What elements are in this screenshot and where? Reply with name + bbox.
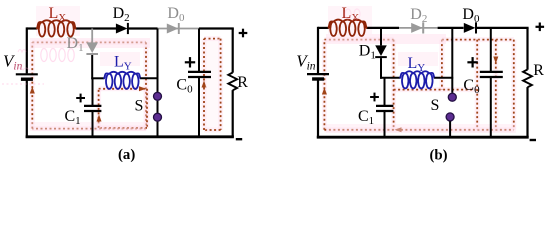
wire: (b) bottom rail [317, 136, 529, 139]
current loop 1 (b): input loop Vin-Lx-D1-C1 [324, 40, 393, 130]
capacitor C0 (b) plates [480, 72, 503, 77]
label S (b) [431, 97, 440, 114]
switch S terminal dot lower (b) [446, 113, 454, 121]
diode D0 (a) gray [167, 23, 179, 34]
label Ly (a) [114, 54, 132, 73]
svg-text:S: S [135, 98, 144, 115]
polarity + of C1 (a) [76, 94, 85, 103]
wire: (a) switch branch (closed) [157, 29, 159, 137]
caption (a) [118, 147, 135, 163]
label C0 (a) [176, 77, 193, 96]
diode D2 (a) [116, 23, 128, 34]
label C0 (b) [463, 77, 480, 96]
label D0 (a) [167, 5, 185, 24]
wire: (b) Ly to switch branch [434, 77, 453, 79]
wire: (b) C1 bottom lead [384, 112, 386, 137]
label D2 (a) [113, 5, 130, 24]
current loop 3 middle edge with down-arrow (b) [493, 40, 498, 130]
wire: (b) top rail to D0 [438, 27, 464, 29]
output terminal + (a) [239, 29, 248, 38]
caption (b) [430, 147, 448, 163]
wire: (b) C0 top lead [490, 28, 492, 71]
current loop 3 up-arrow (a) [202, 81, 207, 88]
diode D2 (b) gray [411, 22, 423, 33]
inductor Lx (b) coil [329, 20, 367, 36]
wire: (a) R branch upper [232, 29, 234, 73]
wire: (a) top rail C0-node to R corner [199, 27, 234, 29]
background tint patches (decorative) [30, 6, 516, 133]
wire: (a) C1 bottom lead [92, 112, 94, 137]
label D2 (b) [410, 6, 427, 25]
current loop 3 right edge (b) [511, 40, 516, 130]
wire: (b) switch branch upper (open) [451, 28, 453, 93]
current loop 2 up-arrow (a) [97, 115, 102, 122]
resistor R (b) zigzag [523, 70, 532, 88]
current loop 2 (b): Ly-D0 loop edges [394, 40, 514, 90]
wire: (a) top rail Lx-to-D2 [76, 27, 117, 29]
wire: (b) D1 branch anode lead [380, 28, 382, 46]
wire: (a) top rail D2-to-S-node [128, 27, 158, 29]
inductor Ly (a) coil [104, 72, 140, 89]
svg-text:R: R [533, 62, 544, 79]
diode D0 (b) [464, 22, 476, 33]
wire: (a) Ly to switch branch [140, 77, 158, 79]
resistor R (a) zigzag [228, 73, 237, 91]
inductor Ly (b) coil [400, 71, 434, 88]
label R (a) [237, 74, 248, 91]
wire: (a) C1 top lead [92, 78, 94, 105]
output terminal - (b) [530, 139, 536, 141]
svg-text:R: R [237, 74, 248, 91]
switch S terminal dot upper (a) [154, 92, 162, 100]
wire: (a) bottom rail [26, 135, 234, 138]
label S (a) [135, 98, 144, 115]
wire: (b) top rail Lx-to-D1-node [367, 27, 400, 29]
polarity + of C0 (b) [467, 57, 477, 67]
battery source Vin (b) plates [307, 74, 329, 79]
wire: (a) top rail left segment [27, 27, 38, 29]
current loop 2 right-arrow (a) [139, 86, 146, 91]
wire: (b) R branch lower [526, 87, 528, 137]
label Vin (b) [296, 52, 316, 73]
wire: (b) C1 top lead [384, 78, 386, 105]
diode D1 (a) gray [86, 42, 98, 54]
wire: (b) node to Ly [380, 77, 400, 79]
decorative jpeg ghost artifacts [17, 50, 29, 71]
label C1 (b) [358, 108, 374, 127]
current loop 3 (a): C0-R output loop [204, 39, 221, 130]
wire: (a) left rail above source [26, 27, 28, 73]
wire: (b) top rail gray segment through D2 (off) [399, 27, 438, 29]
current loop 1 left-arrow (b) [395, 127, 402, 132]
wire: (a) C0 top lead [198, 29, 200, 72]
current loop 3 down-arrow (b) [493, 57, 498, 64]
label R (b) [533, 62, 544, 79]
wire: (b) switch branch lower (open) [449, 121, 451, 137]
output terminal + (b) [536, 23, 545, 32]
svg-text:(b): (b) [430, 147, 448, 163]
wire: (b) top rail left segment [318, 27, 329, 29]
capacitor C1 (a) plates [84, 106, 101, 111]
switch S terminal dot lower (a) [154, 113, 162, 121]
wire: (a) left rail below source [26, 79, 28, 138]
wire: (b) left rail below source [317, 79, 319, 138]
wire: (a) top rail gray segment through D0 (off) [158, 28, 200, 30]
current loop 2 (a): C1-Ly-S loop [99, 89, 147, 128]
label D0 (b) [462, 6, 480, 25]
label Ly (b) [408, 55, 426, 74]
label D1 (a) [67, 35, 84, 54]
inductor Lx (a) coil [37, 20, 76, 36]
polarity + of C0 (a) [185, 57, 195, 67]
label D1 (b) [359, 43, 376, 62]
battery source Vin (a) plates [16, 74, 38, 79]
capacitor C0 (a) plates [188, 72, 211, 77]
wire: (b) left rail above source [317, 27, 319, 73]
wire: (a) R branch lower [232, 90, 234, 137]
current loop bottom rail dashes (b) [324, 127, 513, 132]
output terminal - (a) [236, 138, 242, 140]
svg-text:S: S [431, 97, 440, 114]
polarity + of C1 (b) [370, 93, 379, 102]
wire: (b) R branch upper [526, 28, 528, 70]
label Vin (a) [3, 52, 23, 73]
wire: (a) node to Ly [91, 77, 104, 79]
wire: (a) D1 branch anode lead (gray) [91, 29, 93, 43]
wire: (a) D1 cathode to Ly/C1 node [91, 55, 93, 79]
label C1 (a) [65, 108, 81, 127]
label Lx (a) [49, 5, 67, 24]
svg-text:(a): (a) [118, 147, 135, 163]
wire: (a) C0 bottom lead [198, 78, 200, 137]
capacitor C1 (b) plates [376, 106, 393, 111]
diode D1 (b) [375, 45, 387, 57]
wire: (b) D1 cathode to Ly/C1 node [380, 58, 382, 79]
current loop 1 (a): input loop Vin-Lx-D2-S [32, 42, 146, 128]
wire: (b) C0 bottom lead [490, 78, 492, 137]
wire: (b) top rail D0 to corner [476, 27, 528, 29]
label Lx (b) [342, 5, 360, 24]
switch S terminal dot upper (b) [448, 93, 456, 101]
current loop 2/3 shared left edge (b) [475, 40, 480, 130]
current loop 1 up-arrow (b) [322, 88, 327, 95]
current loop 1 up-arrow (a) [30, 87, 35, 94]
